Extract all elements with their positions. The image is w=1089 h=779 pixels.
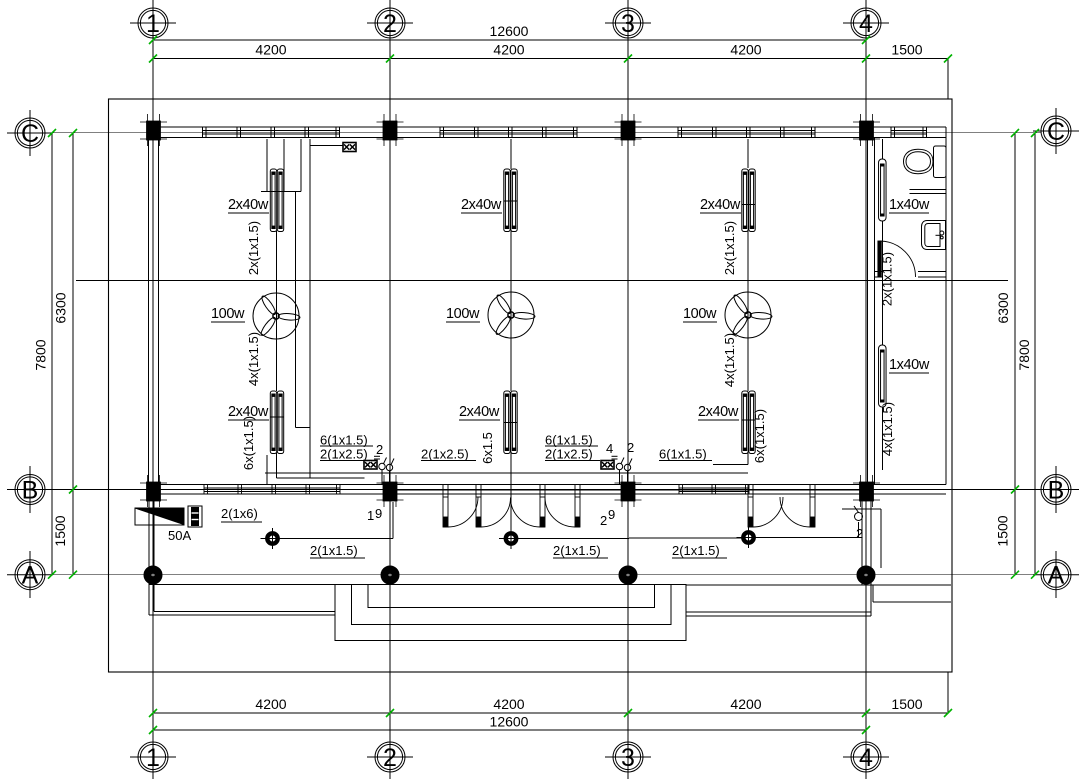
svg-text:6300: 6300 xyxy=(995,292,1011,323)
switch box room1 xyxy=(343,143,356,152)
fluorescent lamp 1x40w toilet xyxy=(879,159,887,221)
porch column A4 xyxy=(857,563,875,587)
svg-text:2(1x1.5): 2(1x1.5) xyxy=(672,543,720,558)
label 2(1x1.5) porch 1 xyxy=(310,543,365,559)
label 2(1x2.5) mid pair xyxy=(545,447,600,462)
svg-text:2(1x2.5): 2(1x2.5) xyxy=(320,447,368,462)
svg-text:2x40w: 2x40w xyxy=(700,197,741,213)
column C4 xyxy=(853,114,880,146)
svg-text:A: A xyxy=(1048,562,1065,590)
fluorescent lamp 1x40w corridor xyxy=(879,345,887,407)
door leaf 2 xyxy=(476,497,481,527)
svg-text:9: 9 xyxy=(375,506,382,521)
axis bubble 4 bottom xyxy=(843,734,889,779)
svg-text:B: B xyxy=(1048,477,1065,505)
svg-text:1x40w: 1x40w xyxy=(889,197,930,213)
axis bubble B right xyxy=(1033,466,1079,513)
label 29 xyxy=(600,507,615,528)
axis bubble 3 bottom xyxy=(605,734,651,779)
svg-text:9: 9 xyxy=(608,507,615,522)
toilet door swing xyxy=(880,241,916,277)
svg-text:6(1x1.5): 6(1x1.5) xyxy=(659,447,707,462)
svg-text:2(1x1.5): 2(1x1.5) xyxy=(553,543,601,558)
distribution panel 50A xyxy=(135,508,184,525)
axis bubble 4 top xyxy=(843,0,889,46)
dimension lines xyxy=(52,40,1035,730)
porch column A3 xyxy=(619,563,637,587)
column B4 xyxy=(853,475,880,507)
axis bubble 3 top xyxy=(605,0,651,46)
svg-text:1x40w: 1x40w xyxy=(889,357,930,373)
axis bubble C left xyxy=(7,110,53,156)
grid line C xyxy=(45,132,1041,134)
fluorescent lamp 2x40w room2 top xyxy=(504,169,518,232)
svg-text:7800: 7800 xyxy=(33,339,49,370)
porch column A2 xyxy=(381,563,399,587)
svg-text:4x(1x1.5): 4x(1x1.5) xyxy=(880,402,895,456)
lamps fans wires xyxy=(135,139,946,549)
label 2x40w room3 bottom xyxy=(698,404,739,421)
switch near column B4 xyxy=(854,506,863,521)
left vertical dim line 7800 xyxy=(51,133,53,575)
label 6(1x1.5) right xyxy=(659,447,712,462)
label 1x40w corridor xyxy=(889,357,930,374)
door swing 6 xyxy=(780,497,810,527)
axis bubble 2 bottom xyxy=(367,734,413,779)
grid line 2 xyxy=(389,38,391,741)
svg-text:2(1x6): 2(1x6) xyxy=(221,506,258,521)
bottom bay dim line xyxy=(153,712,948,714)
axis bubble 1 bottom xyxy=(130,734,176,779)
svg-text:12600: 12600 xyxy=(490,23,529,39)
svg-text:4: 4 xyxy=(859,10,873,38)
porch column A1 xyxy=(144,563,162,587)
svg-text:1500: 1500 xyxy=(995,515,1011,546)
svg-text:4200: 4200 xyxy=(493,42,524,58)
door swing 5 xyxy=(753,497,783,527)
axis bubble B left xyxy=(7,466,53,513)
label 6(1x1.5) left pair xyxy=(320,433,373,448)
switch circles room2 left xyxy=(374,456,394,484)
column B3 xyxy=(615,475,642,507)
wire room1 drop xyxy=(267,139,301,484)
svg-text:4x(1x1.5): 4x(1x1.5) xyxy=(722,333,737,387)
toilet partition wall xyxy=(910,190,947,194)
ceiling fan 100w room3 xyxy=(725,292,772,338)
label 19 xyxy=(367,506,382,523)
svg-text:6300: 6300 xyxy=(53,292,69,323)
svg-text:1: 1 xyxy=(367,508,374,523)
wire room2 drop xyxy=(510,139,512,533)
label 2x40w room1 bottom xyxy=(228,404,269,421)
column B1 xyxy=(140,475,167,507)
svg-text:6x(1x1.5): 6x(1x1.5) xyxy=(241,416,256,470)
svg-text:3: 3 xyxy=(621,744,635,772)
door leaves and swings bay3 xyxy=(748,497,815,527)
porch slab left xyxy=(149,584,335,586)
wire toilet lamps xyxy=(881,139,883,470)
meter box xyxy=(188,506,202,527)
label 100w room1 xyxy=(211,306,245,323)
svg-text:4x(1x1.5): 4x(1x1.5) xyxy=(246,332,261,386)
label 2(1x1.5) porch 2 xyxy=(553,543,608,559)
window C bay3 xyxy=(678,127,815,138)
label 2(1x1.5) porch 3 xyxy=(672,543,727,559)
grid line 3 xyxy=(627,38,629,741)
label 2x40w room2 top xyxy=(461,197,502,214)
fluorescent lamp 2x40w room3 bottom xyxy=(742,391,756,454)
svg-text:2: 2 xyxy=(627,440,634,455)
svg-text:2x(1x1.5): 2x(1x1.5) xyxy=(246,221,261,275)
svg-text:100w: 100w xyxy=(683,306,717,322)
door swing 2 xyxy=(481,498,511,528)
column C3 xyxy=(615,114,642,146)
window B bay1 xyxy=(204,485,340,495)
right exterior wall xyxy=(946,99,952,672)
right vertical dim line 7800 xyxy=(1034,133,1036,575)
door leaves and swings bay2 xyxy=(443,497,580,527)
ceiling fan 100w room2 xyxy=(488,292,535,338)
right annex below B xyxy=(861,494,863,585)
WC toilet tank xyxy=(934,146,947,178)
window B bay3 xyxy=(679,485,749,495)
door swing 4 xyxy=(545,497,575,527)
label 100w room2 xyxy=(446,306,480,323)
svg-text:2: 2 xyxy=(383,10,397,38)
label 1x40w toilet xyxy=(889,197,930,214)
svg-text:2(1x2.5): 2(1x2.5) xyxy=(545,447,593,462)
wire to switch room1 xyxy=(310,145,343,147)
fluorescent lamp 2x40w room1 bottom xyxy=(270,391,284,454)
wire room1 loop xyxy=(261,139,310,478)
WC toilet bowl xyxy=(904,149,934,173)
wire porch lamp run 3 xyxy=(754,522,859,538)
wire along row B wall xyxy=(265,473,748,478)
svg-text:2: 2 xyxy=(376,442,383,457)
toilet south wall with door opening xyxy=(875,272,947,278)
svg-text:4: 4 xyxy=(606,441,613,456)
fluorescent lamp 2x40w room1 top xyxy=(270,169,283,232)
window C toilet xyxy=(891,127,927,138)
svg-text:2: 2 xyxy=(383,744,397,772)
row A porch columns xyxy=(144,563,875,587)
svg-text:6x(1x1.5): 6x(1x1.5) xyxy=(752,409,767,463)
svg-text:2(1x2.5): 2(1x2.5) xyxy=(421,447,469,462)
grid line 1 xyxy=(152,38,154,741)
axis bubble 2 top xyxy=(367,0,413,46)
wire porch lamp run 2 xyxy=(511,497,743,539)
svg-text:3: 3 xyxy=(621,10,635,38)
svg-text:50A: 50A xyxy=(168,528,191,543)
svg-text:2: 2 xyxy=(856,526,863,541)
door swing 1 xyxy=(448,497,478,527)
svg-text:C: C xyxy=(1047,118,1065,146)
switch circles room3 left xyxy=(612,456,633,484)
svg-text:100w: 100w xyxy=(211,306,245,322)
toilet door leaf xyxy=(878,241,916,277)
grid line B xyxy=(45,489,1041,491)
windows row C xyxy=(203,127,927,138)
axis bubble C right xyxy=(1033,108,1079,154)
label 2x40w room2 bottom xyxy=(459,404,500,421)
porch slab right xyxy=(686,584,951,586)
top overall dim line 12600 xyxy=(153,39,866,41)
svg-text:4200: 4200 xyxy=(255,42,286,58)
door leaf 3 xyxy=(540,497,545,527)
svg-text:12600: 12600 xyxy=(490,714,529,730)
roof outline xyxy=(109,99,953,672)
door leaf 6 xyxy=(810,497,815,527)
label 2x40w room1 top xyxy=(228,197,269,214)
label 2x40w room3 top xyxy=(700,197,741,214)
door leaf 4 xyxy=(575,497,580,527)
svg-text:2x(1x1.5): 2x(1x1.5) xyxy=(722,221,737,275)
svg-text:1500: 1500 xyxy=(52,515,68,546)
svg-text:4200: 4200 xyxy=(493,696,524,712)
door swing 3 xyxy=(511,498,541,528)
column C2 xyxy=(377,114,404,146)
row C exterior wall xyxy=(148,127,946,138)
svg-text:2x40w: 2x40w xyxy=(228,197,269,213)
svg-text:2x40w: 2x40w xyxy=(459,404,500,420)
svg-text:A: A xyxy=(22,562,39,590)
right vertical dim line 6300+1500 xyxy=(1014,133,1016,575)
wire porch lamp run 1 xyxy=(278,502,393,539)
entrance steps xyxy=(335,585,686,641)
svg-text:1500: 1500 xyxy=(891,696,922,712)
door jamb marks xyxy=(443,485,815,498)
left vertical dim line 6300+1500 xyxy=(72,133,74,575)
bottom overall dim line 12600 xyxy=(153,729,866,731)
fluorescent lamp 2x40w room2 bottom xyxy=(504,391,518,454)
svg-text:4: 4 xyxy=(859,744,873,772)
window C bay2 xyxy=(440,127,577,138)
svg-text:2(1x1.5): 2(1x1.5) xyxy=(310,543,358,558)
label 6(1x1.5) mid pair xyxy=(545,433,598,448)
svg-text:4200: 4200 xyxy=(730,696,761,712)
label 2(1x2.5) left pair xyxy=(320,447,375,462)
column C1 xyxy=(140,114,167,146)
svg-text:1: 1 xyxy=(146,744,160,772)
svg-text:C: C xyxy=(21,120,39,148)
svg-text:B: B xyxy=(22,477,39,505)
grid line 4 xyxy=(865,38,867,741)
wash basin xyxy=(922,221,946,250)
window C bay1 xyxy=(203,127,340,138)
label 2(1x6) feeder xyxy=(221,506,262,523)
svg-text:2x40w: 2x40w xyxy=(698,404,739,420)
wire room3 drop xyxy=(713,139,748,465)
porch and steps xyxy=(149,494,951,641)
door leaf 5 xyxy=(748,497,753,527)
axis bubble 1 top xyxy=(130,0,176,46)
axis bubble A right xyxy=(1033,551,1079,598)
svg-text:2: 2 xyxy=(600,513,607,528)
axis bubble A left xyxy=(7,551,53,598)
label 100w room3 xyxy=(683,306,717,323)
svg-text:6(1x1.5): 6(1x1.5) xyxy=(545,433,593,448)
columns xyxy=(140,114,880,507)
svg-text:6(1x1.5): 6(1x1.5) xyxy=(320,433,368,448)
svg-text:4200: 4200 xyxy=(255,696,286,712)
left exterior wall xyxy=(149,127,159,494)
switch box room2 left xyxy=(364,461,377,470)
column B2 xyxy=(377,475,404,507)
svg-text:1: 1 xyxy=(146,10,160,38)
toilet west wall xyxy=(868,138,875,485)
svg-text:2x(1x1.5): 2x(1x1.5) xyxy=(880,252,895,306)
fluorescent lamp 2x40w room3 top xyxy=(742,169,756,232)
right 1500 extension line xyxy=(947,59,949,100)
label 2(1x2.5) mid xyxy=(421,447,476,462)
svg-text:2x40w: 2x40w xyxy=(461,197,502,213)
porch lamp 2 xyxy=(499,528,523,549)
porch lamp 1 xyxy=(261,528,285,549)
section line across plan xyxy=(76,280,1008,282)
svg-text:100w: 100w xyxy=(446,306,480,322)
top bay dim line xyxy=(153,58,948,60)
door leaf 1 xyxy=(443,497,448,527)
svg-text:1500: 1500 xyxy=(891,42,922,58)
grid line A xyxy=(45,574,1041,576)
svg-text:7800: 7800 xyxy=(1016,339,1032,370)
porch lamp 3 xyxy=(737,527,761,548)
svg-text:4200: 4200 xyxy=(730,42,761,58)
switch box room3 left xyxy=(601,461,614,470)
row B exterior wall xyxy=(148,485,946,495)
windows row B xyxy=(204,241,916,527)
svg-text:6x1.5: 6x1.5 xyxy=(480,432,495,464)
ceiling fan 100w room1 xyxy=(253,293,300,339)
